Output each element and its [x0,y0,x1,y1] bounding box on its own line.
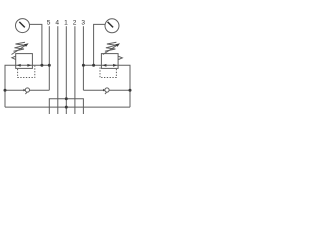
wire R2 input (right side) [118,65,130,107]
wire upper bus (U shape with legs) [49,99,83,114]
svg-text:1: 1 [64,19,68,26]
wire check line right [83,89,130,91]
regulator R1 adjustment arrow [12,43,29,54]
wire port 4 vertical [57,26,59,114]
node junction output / port 3 [82,64,85,67]
wire check line left [5,89,49,91]
regulator R1 body (left) [16,54,33,69]
check valve V1 (left) [24,88,30,94]
wire R2 output to port 3 [83,64,101,66]
node junction upper bus / port 1 [65,97,68,100]
wire gauge G2 to output line [94,24,106,65]
regulator R1 flow path arrows [16,64,33,67]
gauge G2 (right) [105,19,119,33]
port labels 5 4 1 2 3 [47,19,86,26]
node junction output / port 5 [48,64,51,67]
pilot line R2 (dashed U) [100,66,116,78]
node junction gauge G1 / output [40,64,43,67]
regulator R2 spring [105,42,117,51]
wire port 2 vertical [74,26,76,114]
wire port 1 vertical [65,26,67,114]
wire lower bus [5,106,130,108]
wire port 5 vertical [48,26,50,90]
regulator R2 relief vent triangle [119,56,123,59]
wire R1 input (left side) [5,65,16,107]
node junction lower bus / port 1 [65,106,68,109]
regulator R1 spring [14,42,26,51]
regulator R2 body (right) [101,54,118,69]
regulator R2 flow path arrows [101,64,118,67]
regulator R2 adjustment arrow [103,43,120,54]
svg-text:2: 2 [73,19,77,26]
check valve V2 (right) [103,88,109,94]
node junction right input / check line [129,89,132,92]
node junction gauge G2 / output [92,64,95,67]
wire R1 output to port 5 [32,64,49,66]
node junction left input / check line [4,89,7,92]
svg-text:4: 4 [55,19,59,26]
wire gauge G1 to output line [29,24,42,65]
regulator R1 relief vent triangle [12,56,16,59]
svg-text:5: 5 [47,19,51,26]
pilot line R1 (dashed U) [18,66,35,78]
wire port 3 vertical [82,26,84,90]
gauge G1 (left) [16,19,30,33]
svg-text:3: 3 [81,19,85,26]
